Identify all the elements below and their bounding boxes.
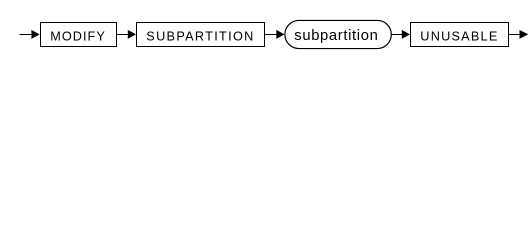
svg-text:SUBPARTITION: SUBPARTITION: [146, 29, 253, 43]
wire entry: [20, 34, 33, 36]
wire oval to UNUSABLE: [391, 34, 403, 36]
label UNUSABLE: [420, 29, 497, 43]
arrowhead exit: [520, 30, 528, 39]
box MODIFY: [41, 23, 117, 47]
wire SUBPARTITION to oval: [265, 34, 278, 36]
svg-text:MODIFY: MODIFY: [50, 29, 105, 43]
box SUBPARTITION: [137, 23, 265, 47]
arrowhead into SUBPARTITION: [128, 30, 136, 39]
arrowhead into oval: [276, 30, 284, 39]
wire MODIFY to SUBPARTITION: [117, 34, 129, 36]
label SUBPARTITION: [146, 29, 253, 43]
label subpartition: [294, 28, 378, 44]
arrowhead into MODIFY: [31, 30, 39, 39]
box UNUSABLE: [411, 23, 509, 47]
wire exit: [509, 34, 521, 36]
svg-text:subpartition: subpartition: [294, 28, 378, 44]
oval subpartition: [285, 20, 391, 48]
svg-text:UNUSABLE: UNUSABLE: [420, 29, 497, 43]
arrowhead into UNUSABLE: [402, 30, 410, 39]
label MODIFY: [50, 29, 105, 43]
